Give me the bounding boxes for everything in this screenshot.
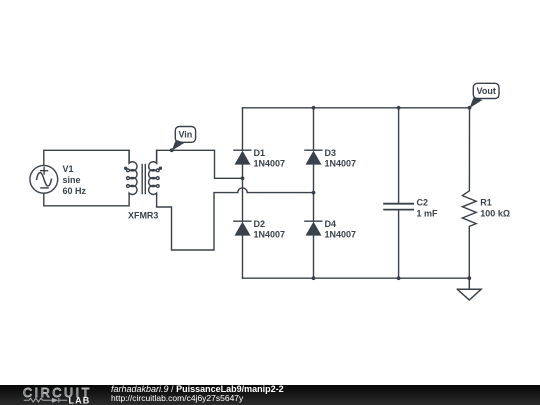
svg-text:D3: D3 [325,148,337,158]
svg-text:1N4007: 1N4007 [325,159,357,169]
svg-text:sine: sine [63,175,81,185]
svg-text:V1: V1 [63,164,74,174]
svg-text:R1: R1 [480,198,492,208]
svg-text:D4: D4 [325,219,337,229]
svg-text:100 kΩ: 100 kΩ [480,209,510,219]
svg-text:Vin: Vin [178,130,192,140]
svg-text:XFMR3: XFMR3 [128,211,159,221]
svg-text:C2: C2 [417,198,429,208]
svg-text:1N4007: 1N4007 [254,159,286,169]
svg-text:D2: D2 [254,219,266,229]
svg-text:http://circuitlab.com/c4j6y27s: http://circuitlab.com/c4j6y27s5647y [111,393,244,403]
svg-text:Vout: Vout [477,86,496,96]
svg-text:1 mF: 1 mF [417,209,439,219]
svg-text:60 Hz: 60 Hz [63,186,87,196]
svg-text:LAB: LAB [69,395,91,405]
svg-text:1N4007: 1N4007 [325,230,357,240]
svg-text:D1: D1 [254,148,266,158]
svg-text:1N4007: 1N4007 [254,230,286,240]
